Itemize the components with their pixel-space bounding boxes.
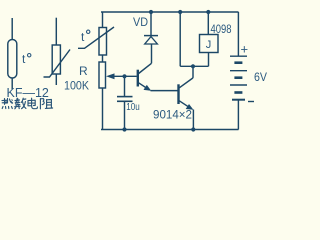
node rail-relay junction	[206, 10, 210, 14]
svg-text:10u: 10u	[126, 101, 140, 113]
potentiometer R 100K	[99, 62, 137, 88]
node cap-ground junction	[122, 127, 126, 131]
thermistor RT illustration capsule body	[8, 18, 17, 89]
thermistor symbol (illustration)	[44, 18, 71, 85]
node rail-collector junction	[178, 10, 182, 14]
svg-text:9014×2: 9014×2	[153, 107, 192, 121]
thermistor RT1	[78, 27, 114, 55]
wire bottom rail	[101, 129, 239, 131]
svg-text:KF—12: KF—12	[7, 86, 49, 100]
transistor Q2	[179, 66, 194, 129]
transistor Q1	[138, 44, 178, 91]
wire left branch lower	[102, 88, 104, 130]
svg-text:VD: VD	[133, 15, 148, 29]
电	[28, 98, 37, 109]
label 热敏电阻 (drawn glyphs)	[2, 98, 53, 109]
热	[2, 99, 13, 109]
svg-text:6V: 6V	[254, 70, 267, 84]
svg-text:R: R	[79, 64, 88, 78]
node Q2 collector junction	[191, 64, 195, 68]
label t° (illustration)	[22, 52, 31, 66]
阻	[40, 99, 52, 109]
svg-text:4098: 4098	[211, 24, 232, 36]
svg-text:100K: 100K	[64, 81, 89, 93]
wire top rail	[101, 11, 239, 13]
wire relay branch from top rail	[180, 12, 208, 66]
label t° RT1	[81, 30, 90, 44]
敏	[15, 98, 26, 109]
wire left branch upper	[102, 12, 104, 28]
node wiper-cap junction	[122, 74, 126, 78]
node Q2 emitter junction	[191, 127, 195, 131]
diode VD	[144, 12, 158, 45]
svg-text:+: +	[241, 42, 249, 57]
svg-text:J: J	[206, 39, 212, 51]
relay coil J box	[200, 12, 219, 53]
battery B1 6V	[230, 12, 254, 130]
wire between thermistor and R	[102, 55, 104, 62]
capacitor C1 10u	[117, 76, 133, 129]
node rail-diode junction	[149, 10, 153, 14]
